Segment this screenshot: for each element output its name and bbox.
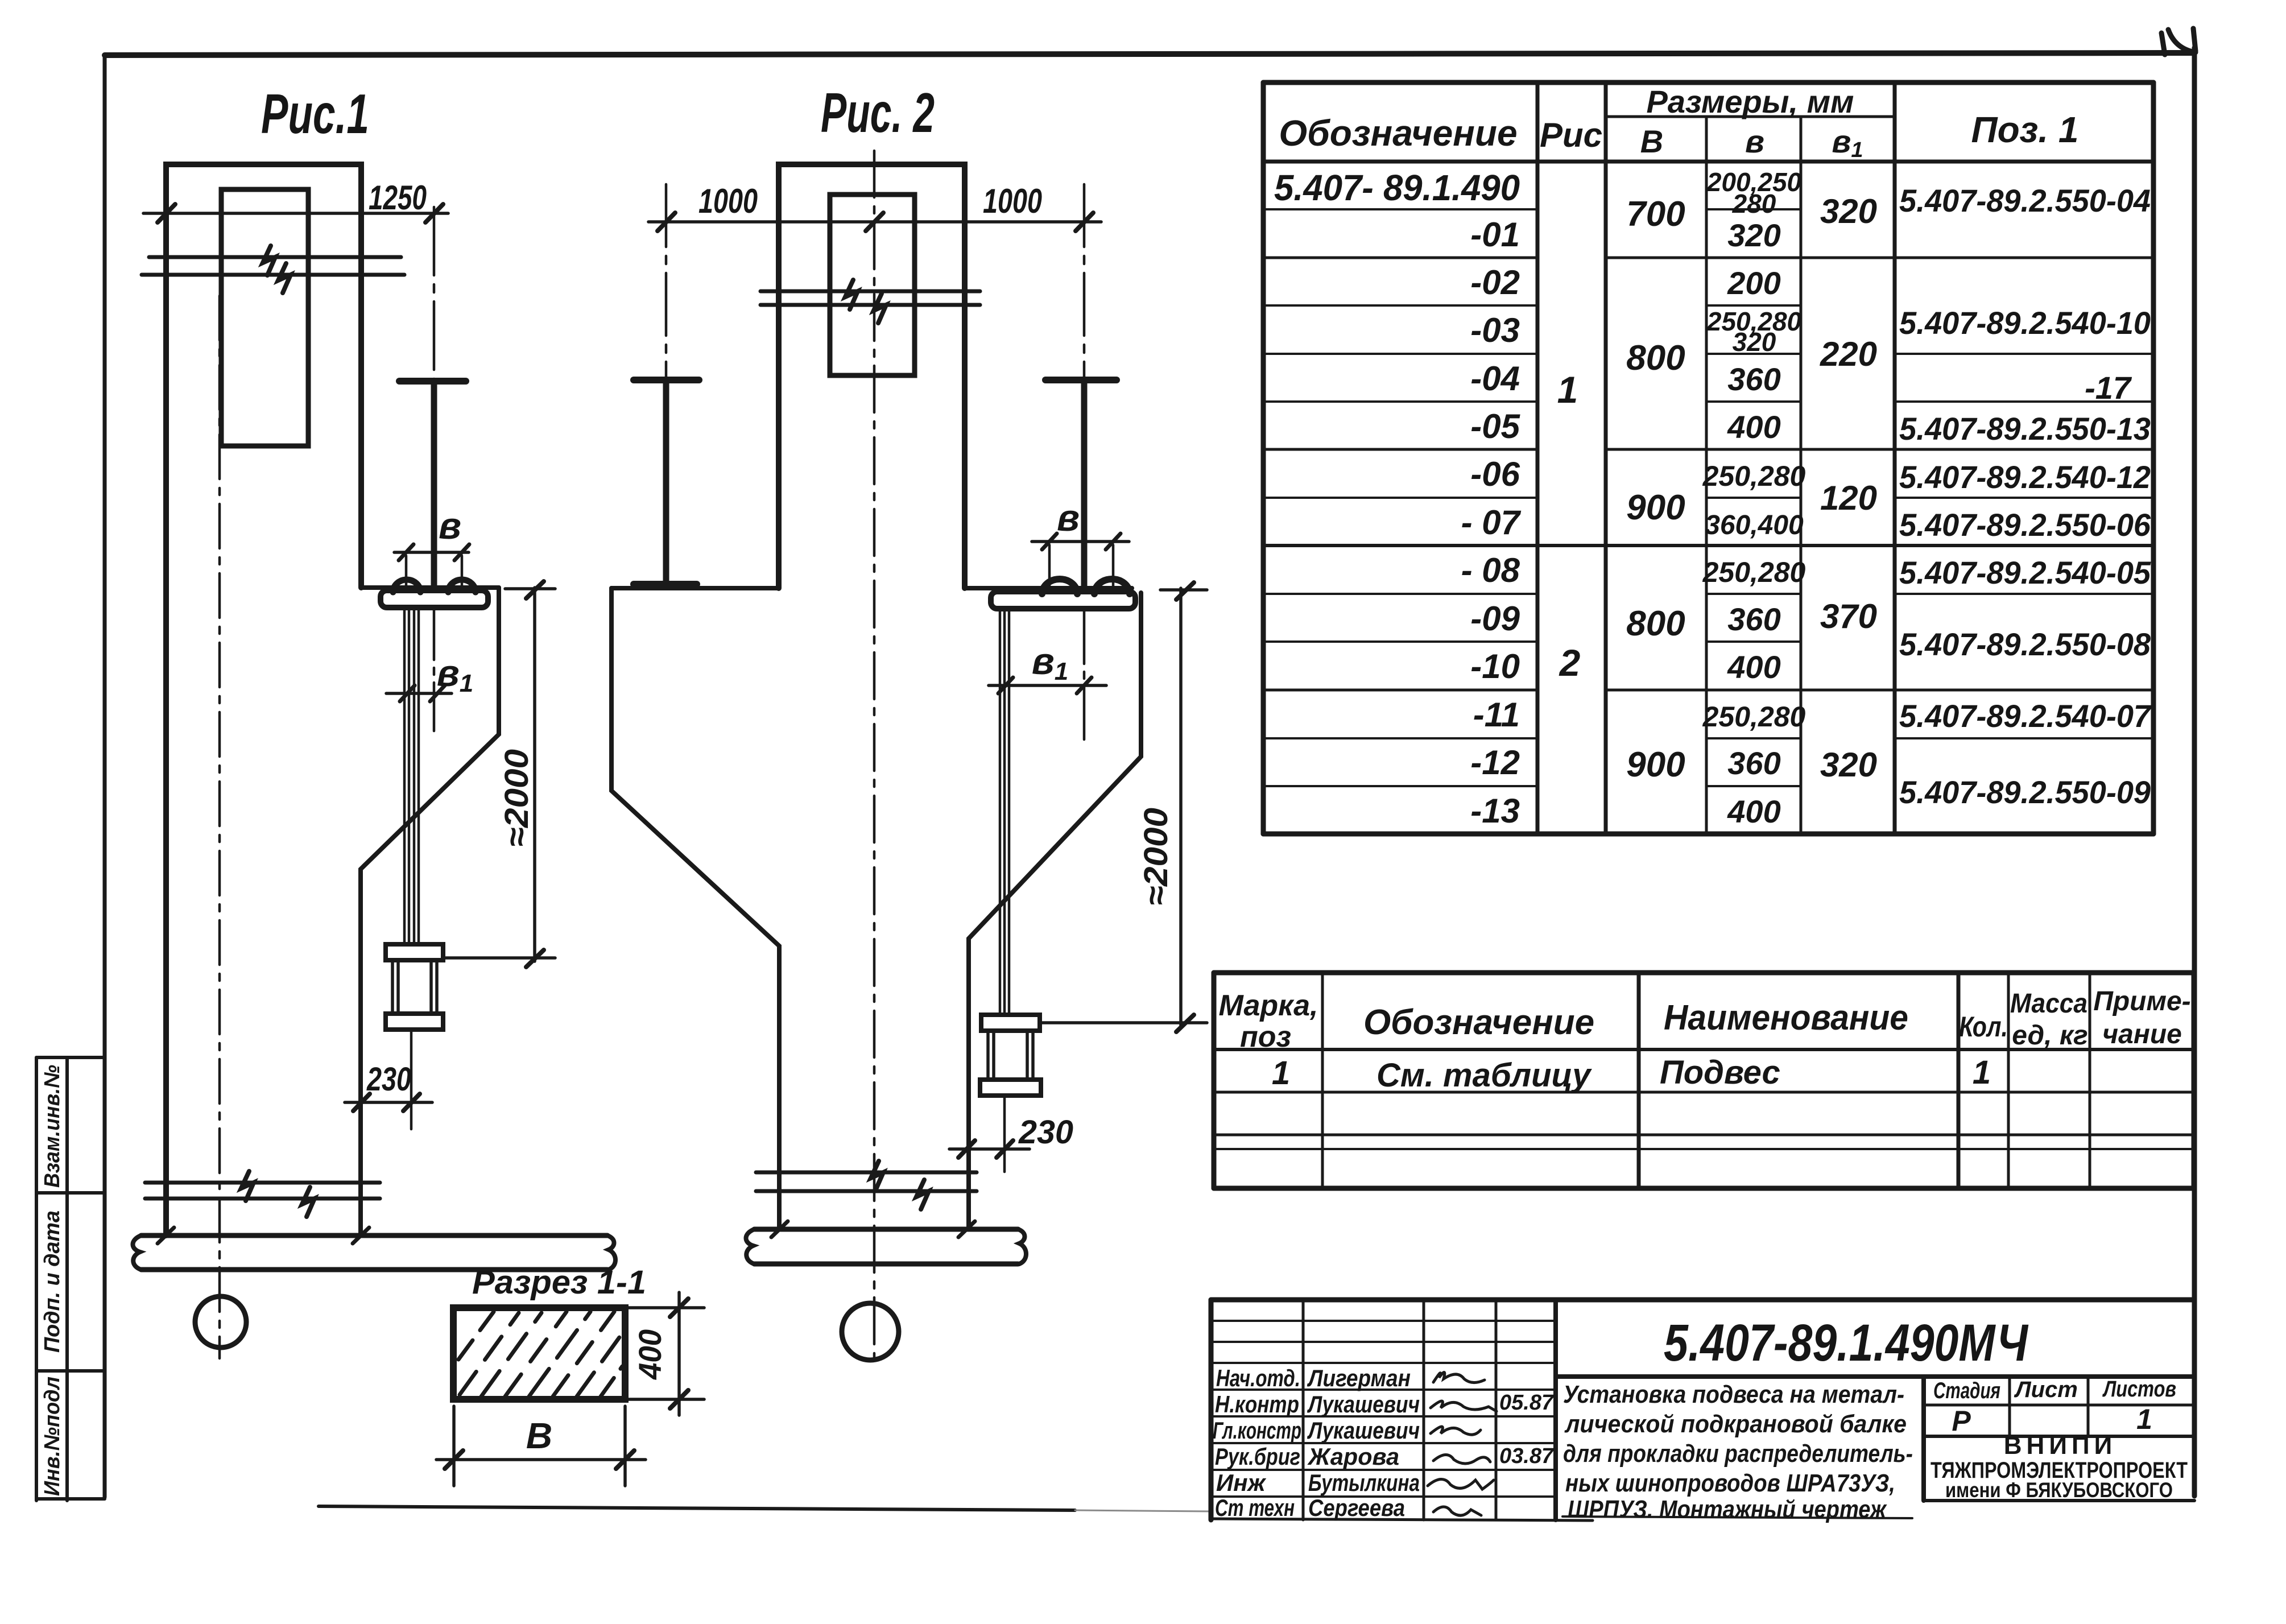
svg-text:800: 800 xyxy=(1626,338,1685,378)
fig1 dim в tick left xyxy=(399,544,414,560)
svg-text:Обозначение: Обозначение xyxy=(1363,1003,1594,1042)
fig1 lower break line a xyxy=(145,1181,380,1185)
v1 column values xyxy=(1820,192,1877,784)
fig2 dim 2000 top tick xyxy=(1176,582,1194,600)
svg-text:370: 370 xyxy=(1820,597,1877,635)
svg-text:400: 400 xyxy=(632,1329,668,1380)
svg-text:≈2000: ≈2000 xyxy=(1138,808,1175,906)
svg-text:900: 900 xyxy=(1626,488,1685,527)
svg-text:700: 700 xyxy=(1626,195,1685,234)
fig2 lower break line b xyxy=(756,1189,977,1193)
svg-text:Приме-: Приме- xyxy=(2093,986,2190,1016)
svg-text:250,280: 250,280 xyxy=(1702,460,1806,492)
svg-text:230: 230 xyxy=(1018,1114,1073,1151)
fig2 dim 230 tick left xyxy=(958,1140,975,1158)
fig1 dim 230 tick left xyxy=(353,1094,370,1111)
fig2 dim 2000 line xyxy=(1179,588,1183,1027)
svg-text:Н.контр: Н.контр xyxy=(1215,1391,1299,1418)
svg-text:5.407-89.2.550-08: 5.407-89.2.550-08 xyxy=(1899,626,2151,662)
fig2 dim в1 tick left xyxy=(998,677,1013,693)
svg-text:чание: чание xyxy=(2102,1019,2182,1049)
SECTION11 xyxy=(436,1264,704,1486)
signature squiggles xyxy=(1428,1372,1497,1515)
svg-text:-17: -17 xyxy=(2085,370,2132,406)
svg-text:1000: 1000 xyxy=(983,182,1042,220)
fig2 dim в tick left xyxy=(1042,534,1057,549)
fig2 dim в tick right xyxy=(1106,534,1121,549)
svg-text:-09: -09 xyxy=(1470,600,1520,638)
svg-text:ШРПУЗ. Монтажный чертеж: ШРПУЗ. Монтажный чертеж xyxy=(1568,1495,1887,1523)
fig2 beam axis extension lower xyxy=(1083,610,1086,739)
fig2 upper break line a xyxy=(760,290,980,294)
svg-text:Кол.: Кол. xyxy=(1959,1011,2008,1043)
svg-text:250,280: 250,280 xyxy=(1702,556,1806,588)
fig2 floor beam right wavy end xyxy=(1018,1229,1026,1264)
left margin stamp strip xyxy=(35,1057,38,1501)
TITLEBLOCK xyxy=(1211,1300,2194,1523)
svg-text:-01: -01 xyxy=(1470,216,1520,254)
svg-text:Установка подвеса на метал-: Установка подвеса на метал- xyxy=(1563,1381,1904,1408)
poz column values xyxy=(1899,183,2152,810)
project title lines xyxy=(1563,1381,1913,1523)
svg-text:Р: Р xyxy=(1952,1405,1971,1437)
fig2 left I-beam axis xyxy=(665,184,668,378)
table grid xyxy=(1263,82,2153,834)
designation rows xyxy=(1274,167,1522,830)
svg-text:Ст техн: Ст техн xyxy=(1215,1494,1295,1521)
svg-text:5.407-89.2.550-13: 5.407-89.2.550-13 xyxy=(1899,411,2151,447)
svg-text:320: 320 xyxy=(1820,746,1877,784)
fig1 clamp body xyxy=(392,960,437,1014)
signature person names xyxy=(1307,1365,1420,1521)
svg-text:5.407-89.2.550-06: 5.407-89.2.550-06 xyxy=(1899,507,2151,543)
svg-text:в: в xyxy=(1745,123,1764,159)
fig1 lower break zigzag b xyxy=(302,1187,315,1217)
svg-text:-05: -05 xyxy=(1470,407,1520,445)
svg-text:360: 360 xyxy=(1727,601,1780,637)
fig2 lower break zigzag a xyxy=(871,1161,883,1191)
fig1 upper break zigzag a xyxy=(263,246,275,275)
fig1 lower column right contour xyxy=(361,588,499,1235)
svg-text:Рук.бриг: Рук.бриг xyxy=(1215,1443,1300,1470)
svg-text:800: 800 xyxy=(1626,604,1685,643)
svg-text:Лукашевич: Лукашевич xyxy=(1307,1391,1420,1418)
fig2 lower break line a xyxy=(756,1171,977,1175)
fig1 dim 2000 line xyxy=(533,588,536,961)
svg-text:Сергеева: Сергеева xyxy=(1308,1494,1405,1521)
fig2 clamp bottom plate xyxy=(980,1080,1041,1096)
fig1 column centerline xyxy=(218,296,221,1358)
fig1 beam tick left xyxy=(158,1228,174,1243)
fig1 floor beam xyxy=(141,1235,607,1270)
fig2 saddle hook left xyxy=(1042,579,1077,594)
fig2 right shelf xyxy=(965,586,1132,590)
svg-text:Обозначение: Обозначение xyxy=(1279,113,1517,154)
fig1 dim 230 tick right xyxy=(403,1094,420,1111)
fig1 upper break line b xyxy=(142,273,404,277)
svg-text:5.407-89.2.550-04: 5.407-89.2.550-04 xyxy=(1899,183,2151,218)
fig1 floor beam right wavy end xyxy=(607,1235,615,1270)
svg-text:Нач.отд.: Нач.отд. xyxy=(1216,1365,1300,1391)
svg-text:280: 280 xyxy=(1732,189,1776,218)
fig2 bracket plate xyxy=(991,592,1135,609)
svg-text:Лукашевич: Лукашевич xyxy=(1307,1417,1420,1444)
svg-text:Инж: Инж xyxy=(1216,1469,1267,1496)
svg-text:-13: -13 xyxy=(1470,792,1520,830)
fig2 dim tick left xyxy=(658,213,675,231)
fig2 upper break line b xyxy=(760,303,980,307)
svg-text:-02: -02 xyxy=(1470,263,1520,301)
svg-text:5.407-89.2.540-10: 5.407-89.2.540-10 xyxy=(1899,305,2151,341)
svg-text:05.87: 05.87 xyxy=(1499,1391,1555,1415)
svg-text:220: 220 xyxy=(1820,335,1877,373)
fig2 dim 2000 bottom tick xyxy=(1176,1015,1194,1032)
fig1 dim в1 tick left xyxy=(400,685,415,701)
fig1 dim 1250 tick right xyxy=(425,204,443,222)
svg-text:Рис: Рис xyxy=(1540,116,1602,154)
svg-text:1000: 1000 xyxy=(698,182,758,220)
section dim 400 line xyxy=(677,1292,681,1415)
svg-text:Наименование: Наименование xyxy=(1664,998,1908,1038)
fig2 dim 2000 top ext xyxy=(1160,588,1207,592)
fig2 left I-beam bottom flange xyxy=(634,581,697,588)
fig2 clamp body xyxy=(988,1031,1033,1080)
fig2 upper break zigzag a xyxy=(845,280,858,309)
fig1 plumb circle xyxy=(195,1296,246,1348)
svg-text:- 08: - 08 xyxy=(1461,551,1520,589)
svg-text:Лист: Лист xyxy=(2014,1377,2078,1402)
section dim 400 ext bottom xyxy=(625,1398,704,1401)
fig2 column outer contour xyxy=(779,164,965,588)
fig1 dim в line xyxy=(394,551,469,554)
section dim B tick right xyxy=(616,1451,634,1469)
B column values xyxy=(1626,195,1685,784)
svg-text:-10: -10 xyxy=(1470,647,1520,685)
svg-text:Рис.1: Рис.1 xyxy=(261,82,369,145)
svg-text:360,400: 360,400 xyxy=(1705,510,1804,540)
svg-text:Гл.констр: Гл.констр xyxy=(1213,1417,1301,1444)
fig2 dim в1 line xyxy=(989,684,1106,687)
svg-text:Листов: Листов xyxy=(2102,1377,2176,1402)
svg-text:360: 360 xyxy=(1727,745,1780,781)
fig2 dim 2000 bottom ext xyxy=(1042,1021,1207,1024)
svg-text:Масса: Масса xyxy=(2010,989,2087,1019)
svg-text:320: 320 xyxy=(1820,192,1877,230)
fig2 lower break zigzag b xyxy=(916,1180,929,1209)
svg-text:5.407-89.2.540-05: 5.407-89.2.540-05 xyxy=(1899,555,2151,590)
fig1 dim 1250 tick left xyxy=(158,204,175,222)
svg-text:-03: -03 xyxy=(1470,311,1520,349)
BIGTABLE xyxy=(1263,82,2153,834)
svg-text:ед, кг: ед, кг xyxy=(2012,1020,2088,1051)
fig2 dim в ext lines xyxy=(1049,545,1113,586)
FIG1 xyxy=(133,82,616,1358)
fig1 beam axis extension lower xyxy=(433,609,436,731)
svg-text:Инв.№подл: Инв.№подл xyxy=(40,1377,64,1496)
fig1 dim 2000 top ext xyxy=(505,587,555,590)
svg-text:Подп. и дата: Подп. и дата xyxy=(40,1210,64,1353)
fig2 rod tail axis xyxy=(1003,1096,1006,1172)
svg-text:Взам.инв.№: Взам.инв.№ xyxy=(40,1065,64,1188)
corner page mark top-right xyxy=(2161,28,2196,55)
svg-text:для прокладки распределитель-: для прокладки распределитель- xyxy=(1563,1440,1913,1468)
svg-text:В: В xyxy=(1640,123,1663,159)
section body rect xyxy=(453,1308,625,1399)
svg-text:См. таблицу: См. таблицу xyxy=(1376,1057,1592,1094)
fig1 dim 2000 top tick xyxy=(526,581,544,598)
svg-text:-06: -06 xyxy=(1470,455,1520,493)
fig2 dim 1000+1000 line xyxy=(648,220,1101,224)
svg-text:≈2000: ≈2000 xyxy=(498,749,535,847)
svg-text:400: 400 xyxy=(1727,649,1780,685)
svg-text:1: 1 xyxy=(1973,1054,1991,1091)
svg-text:-12: -12 xyxy=(1470,743,1520,782)
svg-text:250,280: 250,280 xyxy=(1702,701,1806,733)
svg-text:Лигерман: Лигерман xyxy=(1307,1365,1411,1391)
fig2 dim 230 line xyxy=(949,1147,1030,1151)
fig2 plumb circle xyxy=(842,1303,899,1360)
fig1 bracket shelf xyxy=(361,585,499,590)
fig2 dim tick center xyxy=(866,213,883,231)
fig2 saddle hook right xyxy=(1094,579,1130,594)
frame bottom border (faint, partially visible) xyxy=(319,1506,1075,1510)
fig2 floor beam xyxy=(754,1229,1018,1264)
section dim 400 tick top xyxy=(670,1299,688,1317)
svg-text:в: в xyxy=(439,505,461,547)
svg-text:Стадия: Стадия xyxy=(1933,1378,2000,1403)
fig1 crane I-beam web xyxy=(431,384,437,586)
svg-text:5.407-89.1.490МЧ: 5.407-89.1.490МЧ xyxy=(1664,1314,2029,1372)
svg-text:03.87: 03.87 xyxy=(1499,1444,1555,1468)
fig1 clamp bottom plate xyxy=(386,1014,443,1030)
fig2 left I-beam web xyxy=(663,383,669,582)
fig2 clamp top plate xyxy=(981,1015,1040,1031)
fig2 column inner slot xyxy=(830,195,915,375)
fig1 clamp top plate xyxy=(386,944,443,960)
fig1 dim в1 tick right xyxy=(430,685,445,701)
fig1 dim 230 line xyxy=(345,1101,432,1104)
svg-text:Поз. 1: Поз. 1 xyxy=(1971,109,2079,150)
PARTSTABLE xyxy=(1214,973,2193,1188)
frame top border xyxy=(105,53,2194,55)
fig1 dim 1250 line xyxy=(143,212,448,215)
fig1 upper break line a xyxy=(149,255,401,259)
fig2 beam tick right xyxy=(958,1221,975,1237)
fig2 beam tick left xyxy=(771,1221,788,1237)
signature role names xyxy=(1213,1365,1301,1521)
fig2 dim в1 tick right xyxy=(1077,677,1092,693)
fig1 bracket plate xyxy=(381,590,488,608)
svg-text:900: 900 xyxy=(1626,745,1685,784)
fig2 right lower contour xyxy=(969,593,1141,1229)
svg-text:400: 400 xyxy=(1727,409,1780,445)
section dim B tick left xyxy=(445,1451,463,1469)
svg-text:имени Ф БЯКУБОВСКОГО: имени Ф БЯКУБОВСКОГО xyxy=(1945,1478,2173,1502)
svg-text:лической подкрановой балке: лической подкрановой балке xyxy=(1564,1410,1907,1438)
fig1 dim 2000 bottom ext xyxy=(444,956,555,960)
section dim B ext right xyxy=(623,1406,627,1486)
svg-text:1250: 1250 xyxy=(369,179,427,217)
fig2 floor beam left wavy end xyxy=(746,1229,755,1264)
fig2 hanger rod xyxy=(1000,609,1009,1015)
fig1 upper break zigzag b xyxy=(278,263,291,293)
svg-text:-11: -11 xyxy=(1473,696,1520,734)
fig2 right I-beam axis xyxy=(1083,184,1086,378)
fig2 right I-beam web xyxy=(1081,383,1088,590)
svg-text:Рис. 2: Рис. 2 xyxy=(821,81,935,144)
fig2 left I-beam top flange xyxy=(634,377,699,383)
fig1 saddle hook left xyxy=(393,580,420,592)
section hatch xyxy=(458,1312,622,1396)
svg-text:320: 320 xyxy=(1727,217,1780,253)
svg-text:-04: -04 xyxy=(1470,359,1520,398)
fig1 dim 2000 bottom tick xyxy=(526,950,544,967)
fig2 dim tick right xyxy=(1076,213,1093,231)
fig1 dim в1 line xyxy=(386,692,452,695)
frame left border xyxy=(103,55,107,1497)
svg-text:320: 320 xyxy=(1733,327,1776,357)
svg-text:2: 2 xyxy=(1559,642,1581,684)
fig1 rod tail axis xyxy=(410,1030,413,1129)
svg-text:Разрез 1-1: Разрез 1-1 xyxy=(472,1264,646,1301)
svg-text:ных шинопроводов ШРА73УЗ,: ных шинопроводов ШРА73УЗ, xyxy=(1565,1469,1895,1497)
section dim B ext left xyxy=(452,1406,456,1486)
fig1 beam axis extension upper xyxy=(433,207,436,380)
svg-text:230: 230 xyxy=(366,1061,411,1098)
fig2 upper break zigzag b xyxy=(874,294,886,323)
section dim 400 ext top xyxy=(625,1306,704,1309)
fig2 dim 230 tick right xyxy=(997,1140,1013,1158)
fig1 lower break line b xyxy=(145,1197,380,1201)
svg-text:1: 1 xyxy=(1557,369,1578,411)
fig1 column outer contour xyxy=(166,164,361,1235)
fig1 dim в ext lines xyxy=(406,556,462,586)
svg-text:Марка,: Марка, xyxy=(1219,989,1318,1022)
svg-text:ВНИПИ: ВНИПИ xyxy=(2004,1432,2116,1460)
svg-text:5.407-89.2.540-12: 5.407-89.2.540-12 xyxy=(1899,459,2151,495)
svg-text:Жарова: Жарова xyxy=(1307,1443,1399,1470)
svg-text:Размеры, мм: Размеры, мм xyxy=(1647,84,1854,119)
svg-text:поз: поз xyxy=(1240,1020,1291,1053)
fig1 crane I-beam top flange xyxy=(399,378,466,385)
svg-text:Подвес: Подвес xyxy=(1660,1054,1780,1091)
fig1 dim в tick right xyxy=(454,544,469,560)
svg-text:В: В xyxy=(526,1415,552,1456)
svg-text:120: 120 xyxy=(1820,479,1877,517)
fig2 right I-beam top flange xyxy=(1045,377,1117,383)
svg-text:5.407-89.2.540-07: 5.407-89.2.540-07 xyxy=(1899,698,2152,734)
svg-text:5.407-89.2.550-09: 5.407-89.2.550-09 xyxy=(1899,774,2151,810)
fig1 beam tick right xyxy=(353,1228,369,1243)
fig1 hanger rod xyxy=(404,608,419,945)
frame right border xyxy=(2192,48,2197,1496)
fig2 left shelf xyxy=(611,586,779,590)
fig2 left lower contour xyxy=(611,588,779,1229)
fig2 dim в line xyxy=(1032,540,1129,543)
title block grid xyxy=(1211,1300,2194,1520)
fig1 lower break zigzag a xyxy=(241,1171,254,1201)
fig1 floor beam left wavy end xyxy=(133,1235,142,1270)
svg-text:1: 1 xyxy=(1272,1055,1290,1092)
fig1 saddle hook right xyxy=(448,580,476,592)
svg-text:в: в xyxy=(1057,497,1080,539)
svg-text:5.407- 89.1.490: 5.407- 89.1.490 xyxy=(1274,167,1520,208)
section dim B line xyxy=(436,1458,646,1461)
fig2 column centerline xyxy=(873,151,876,1361)
parts table grid xyxy=(1214,973,2193,1188)
svg-text:400: 400 xyxy=(1727,794,1780,829)
svg-text:360: 360 xyxy=(1727,361,1780,397)
svg-text:200: 200 xyxy=(1727,265,1780,301)
svg-text:- 07: - 07 xyxy=(1461,503,1522,542)
fig1 column inner slot xyxy=(221,189,308,446)
section dim 400 tick bottom xyxy=(670,1390,688,1408)
svg-text:Бутылкина: Бутылкина xyxy=(1308,1469,1420,1496)
v column values xyxy=(1702,167,1806,829)
FIG2 xyxy=(611,81,1207,1361)
svg-text:1: 1 xyxy=(2136,1403,2152,1435)
